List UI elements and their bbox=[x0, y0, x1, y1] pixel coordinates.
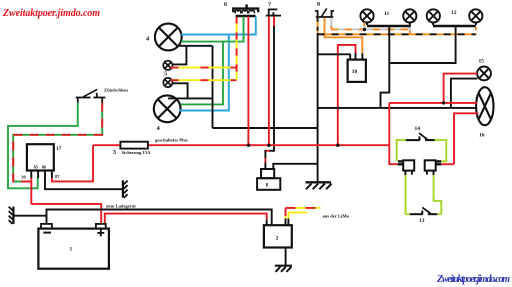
wire red elbow from main plus to flasher 10 bbox=[338, 45, 356, 145]
blinker connector left (14) bbox=[398, 160, 415, 175]
junction dot red bbox=[442, 101, 445, 104]
wire black pin 86 to ground bbox=[45, 178, 122, 189]
wire yellow-red striped from lamp 5a bbox=[171, 67, 237, 69]
wire black to chassis ground bbox=[13, 215, 46, 217]
wire black: long ground line to horn ground bbox=[213, 127, 318, 129]
wire black regulator 2 to ground bbox=[285, 248, 287, 265]
brake light switch 13 bbox=[410, 207, 437, 214]
wire black: ground drop of bar 11 (staircase) bbox=[381, 27, 390, 108]
switch 9 (light switch) bbox=[315, 8, 334, 17]
blinker connector right (14) bbox=[425, 160, 442, 175]
pins of 10 bbox=[350, 53, 362, 60]
wire green from connector 6 bbox=[243, 17, 245, 42]
wire red-yellow striped from regulator 2 (LiMa) bbox=[286, 208, 321, 225]
svg-text:3: 3 bbox=[113, 150, 116, 156]
horn 8 bbox=[257, 169, 280, 190]
regulator 2 bbox=[264, 225, 292, 247]
svg-text:aus der LiMa: aus der LiMa bbox=[323, 214, 350, 219]
wire black bus: switch9-left down to headlight line, and to flasher 10 pin bbox=[318, 33, 351, 181]
stub lamp 12b to bar and dashed line bbox=[475, 23, 477, 35]
blinker switch 14 bbox=[406, 133, 435, 140]
wire orange with black dashes (lower line) bbox=[318, 33, 476, 35]
bar joining lamps 11 bbox=[367, 25, 410, 27]
wire yellowgreen from switch 14 to connectors bbox=[397, 140, 447, 161]
wire blue: top lamp to connector 6 and bottom lamp bbox=[179, 17, 256, 111]
battery terminal minus bbox=[41, 224, 52, 229]
stub lamp 11b down to dashed line bbox=[409, 23, 411, 35]
wire gray-orange from switch 9 right bbox=[330, 18, 332, 30]
wire black from lamp 15 to ground bus bbox=[451, 79, 478, 108]
lamp 12b bbox=[469, 9, 482, 22]
ground (regulator) bbox=[275, 266, 292, 272]
wire red from connector 6 down to main plus line bbox=[247, 17, 249, 146]
wire red low beam to headlamp bbox=[454, 113, 478, 164]
fuse 3 bbox=[120, 142, 147, 149]
lamp 12a bbox=[427, 9, 440, 22]
svg-text:17: 17 bbox=[56, 146, 62, 152]
stub lamp 12a to bar bbox=[432, 23, 434, 26]
wire red to right connector bbox=[441, 163, 454, 165]
wire black: lamp cluster ground bus bbox=[168, 46, 213, 128]
svg-text:zum Ladegerät: zum Ladegerät bbox=[106, 204, 136, 209]
lamp 4 bottom bbox=[154, 95, 181, 122]
wire red to lamp 15 bbox=[444, 74, 478, 103]
wire red from switch 7 down to main plus line bbox=[268, 17, 270, 146]
lamp 4 top (headlight bulb left) bbox=[155, 24, 182, 51]
ground (battery) bbox=[9, 207, 14, 224]
svg-text:9: 9 bbox=[317, 2, 320, 8]
wire yellow-red striped from lamp 5b bbox=[171, 79, 237, 81]
ground (relay) bbox=[123, 180, 128, 198]
svg-text:5: 5 bbox=[164, 72, 167, 78]
lamp 11b bbox=[403, 9, 416, 22]
wire yellowgreen from connectors down to switch 13 bbox=[406, 175, 442, 214]
wire gray with orange dashes (upper headlight line) bbox=[331, 28, 410, 30]
wire red-yellow striped vertical from connector 6 bbox=[236, 17, 238, 81]
svg-text:Zweitaktpoer.jimdo.com: Zweitaktpoer.jimdo.com bbox=[2, 8, 100, 19]
connector 6 bbox=[233, 4, 258, 16]
wire green ignition left to relay 85 bbox=[8, 103, 78, 189]
svg-text:14: 14 bbox=[415, 126, 421, 132]
bar joining lamps 12 bbox=[433, 25, 476, 27]
wire green: top lamp to connector 6 and bottom lamp bbox=[181, 17, 244, 105]
svg-text:15: 15 bbox=[479, 59, 485, 65]
lamp 15 bbox=[477, 67, 491, 81]
wire black battery minus to regulator 2 bbox=[47, 210, 272, 226]
svg-text:12: 12 bbox=[451, 10, 457, 16]
ground (horn) bbox=[306, 182, 332, 189]
battery 1 bbox=[38, 229, 109, 269]
wire red riser to blinker connectors bbox=[389, 103, 398, 164]
svg-text:Zweitaktpoer.jimdo.com: Zweitaktpoer.jimdo.com bbox=[436, 274, 510, 285]
ignition lock (Zuendschloss) bbox=[76, 89, 106, 103]
wire orange-black striped from switch 9 left bbox=[317, 18, 319, 35]
junction dots on plus line bbox=[247, 144, 250, 147]
lamp 11a bbox=[360, 9, 373, 22]
svg-text:10: 10 bbox=[352, 69, 358, 75]
svg-text:2: 2 bbox=[276, 235, 279, 241]
svg-text:Zündschloss: Zündschloss bbox=[104, 88, 128, 93]
svg-text:11: 11 bbox=[384, 11, 389, 17]
small lamp 5b bbox=[163, 78, 172, 87]
relay 17 bbox=[27, 144, 54, 170]
wire red pin 30 down to battery plus bbox=[30, 178, 32, 204]
switch 7 (horn button) bbox=[266, 9, 281, 16]
wire yellow from regulator 2 bbox=[288, 213, 307, 226]
svg-text:geschaltetes Plus: geschaltetes Plus bbox=[155, 138, 188, 143]
wire red battery plus to regulator 2 bbox=[105, 214, 267, 224]
wire black horn to ground stem bbox=[273, 164, 317, 169]
relay pins bbox=[31, 171, 52, 179]
headlamp 16 bbox=[476, 87, 493, 125]
wire red battery plus to relay 30 bbox=[31, 204, 101, 224]
svg-text:Sicherung 15A: Sicherung 15A bbox=[122, 150, 152, 155]
svg-text:7: 7 bbox=[268, 3, 271, 9]
flasher relay 10 bbox=[348, 60, 366, 82]
stub lamp 11a to gray line (orange/gray) bbox=[363, 23, 365, 30]
wire red high beam to headlamp bbox=[389, 102, 477, 104]
svg-text:1: 1 bbox=[70, 247, 73, 253]
wire orange from switch 9 center to flasher 10 bbox=[325, 18, 363, 54]
minus sign bbox=[43, 232, 51, 234]
stub lamp 11a to bar bbox=[366, 23, 368, 26]
junction dot on gray line bbox=[363, 28, 366, 31]
small lamp 5a bbox=[163, 61, 172, 70]
wire black: ground drop of bar 12 bbox=[389, 27, 455, 63]
main red switched plus line bbox=[93, 144, 389, 146]
wire red pin 87 to fuse line bbox=[52, 145, 93, 181]
plus sign bbox=[97, 229, 104, 236]
svg-text:13: 13 bbox=[419, 218, 425, 224]
svg-text:6: 6 bbox=[224, 2, 227, 8]
battery terminal plus bbox=[96, 224, 106, 229]
wire red/black from switch 7 down to horn bbox=[265, 17, 275, 170]
wire green-red striped ignition right to relay 30 bbox=[13, 103, 102, 182]
wire black: long bus to headlamp bbox=[318, 107, 477, 109]
svg-text:16: 16 bbox=[479, 133, 485, 139]
